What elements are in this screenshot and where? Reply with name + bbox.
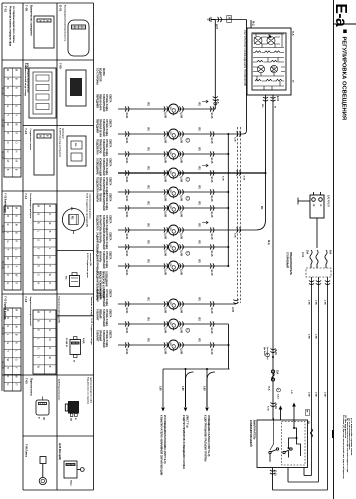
- svg-text:Г-05: Г-05: [25, 378, 29, 384]
- svg-text:О: О: [6, 141, 10, 143]
- svg-text:ОГОНЬ ЗАДН.: ОГОНЬ ЗАДН.: [105, 139, 108, 157]
- switch bottom lead: [272, 468, 274, 491]
- lamp row 2 lamp socket right: [180, 131, 184, 136]
- svg-text:Ж-01: Ж-01: [125, 251, 128, 257]
- svg-text:Г-05: Г-05: [25, 5, 29, 11]
- svg-text:RG: RG: [198, 202, 200, 206]
- lamp row 1 connector right: [210, 106, 214, 111]
- svg-text:ОГОНЬ ЗАДН.: ОГОНЬ ЗАДН.: [105, 330, 108, 348]
- svg-text:ОГОНЬ ЗАДН.: ОГОНЬ ЗАДН.: [105, 158, 108, 176]
- lamp row 7 connector right: [210, 227, 214, 232]
- svg-text:Г-08: Г-08: [59, 63, 63, 69]
- lamp row 9 connector right: [210, 263, 214, 268]
- svg-text:Ц-08: Ц-08: [164, 138, 167, 144]
- svg-text:Ж-15: Ж-15: [210, 234, 213, 240]
- lamp row 12 lamp: [169, 340, 179, 350]
- svg-text:Ж-15: Ж-15: [210, 328, 213, 334]
- lamp row 2 connector right: [210, 131, 214, 136]
- lamp row 8 connector left: [125, 244, 129, 249]
- svg-text:RG: RG: [65, 276, 67, 280]
- svg-text:3.0В: 3.0В: [314, 300, 316, 305]
- svg-text:ПРАВАЯ ФАРА: ПРАВАЯ ФАРА: [99, 119, 102, 137]
- lamp row 4 ref arrow: [202, 164, 208, 167]
- svg-text:ОГОНЬ ЗАДН.: ОГОНЬ ЗАДН.: [105, 177, 108, 195]
- svg-text:СВЕТА: СВЕТА: [109, 251, 112, 260]
- connector E-02w circle: [62, 209, 84, 231]
- svg-text:R: R: [37, 329, 41, 331]
- svg-text:СОЕДИНИТЕЛЬНЫЙ ШНУР: СОЕДИНИТЕЛЬНЫЙ ШНУР: [95, 271, 98, 302]
- svg-text:ЛМ: ЛМ: [169, 263, 171, 266]
- svg-text:ЛМ: ЛМ: [169, 151, 171, 154]
- lamp row 1 ref arrow: [202, 100, 208, 103]
- svg-text:ЛАМПА: ЛАМПА: [95, 193, 98, 202]
- svg-text:G: G: [6, 240, 10, 242]
- svg-text:МЕЖДУ КОМБИНАЦИЕЙ: МЕЖДУ КОМБИНАЦИЕЙ: [98, 271, 101, 299]
- drop wire 1: [162, 369, 164, 407]
- svg-text:ГАБАРИТ: ГАБАРИТ: [95, 330, 98, 342]
- combination switch box: [257, 420, 308, 468]
- svg-text:Под капотом со стороны: Под капотом со стороны: [87, 377, 89, 404]
- connector G-14 pin grid: [33, 204, 56, 290]
- svg-text:ПОДСВЕТКА: ПОДСВЕТКА: [95, 139, 98, 155]
- svg-text:Ж-01: Ж-01: [125, 328, 128, 334]
- svg-text:Г-16: Г-16: [24, 297, 28, 303]
- svg-text:Ц-08: Ц-08: [164, 158, 167, 164]
- lamp row 8 lamp socket left: [164, 244, 168, 249]
- svg-text:И ОСВЕЩЕНИЯ БАГАЖНИКА (ЛИСТ Е-: И ОСВЕЩЕНИЯ БАГАЖНИКА (ЛИСТ Е-б): [163, 415, 166, 464]
- lamp row 1 lamp socket right: [180, 106, 184, 111]
- lamp row 2 wire: [118, 133, 168, 135]
- lamp row 12 lamp socket right: [180, 342, 184, 347]
- svg-text:ЛМ: ЛМ: [169, 342, 171, 345]
- svg-text:G: G: [6, 105, 10, 107]
- regulator unit outer box: [247, 28, 291, 95]
- svg-text:(ЛИСТ Г-а): (ЛИСТ Г-а): [185, 415, 188, 428]
- lamp row 7 wire: [118, 229, 168, 231]
- svg-text:Ж-15: Ж-15: [210, 349, 213, 355]
- svg-text:E-a: E-a: [332, 4, 349, 28]
- svg-text:1: 1: [175, 112, 177, 113]
- svg-text:Х-05: Х-05: [234, 233, 236, 238]
- svg-text:0.85: 0.85: [203, 386, 205, 391]
- svg-text:B: B: [37, 213, 41, 215]
- svg-text:ЛМ: ЛМ: [169, 131, 171, 134]
- svg-text:R: R: [6, 325, 10, 327]
- connector G-10 plug: [34, 130, 54, 175]
- svg-text:Ж-15: Ж-15: [210, 251, 213, 257]
- svg-text:СВЕТА: СВЕТА: [109, 119, 112, 128]
- lamp row 10 connector right: [210, 301, 214, 306]
- svg-text:ГАБАРИТ: ГАБАРИТ: [95, 309, 98, 321]
- col3 divider 250: [57, 250, 94, 252]
- svg-text:Е-01: Е-01: [59, 5, 63, 12]
- svg-text:Ц-05 Переключение: Ц-05 Переключение: [57, 379, 59, 401]
- svg-text:ЛМ: ЛМ: [169, 244, 171, 247]
- svg-text:ОГОНЬ ЗАДН.: ОГОНЬ ЗАДН.: [105, 289, 108, 307]
- svg-text:1: 1: [175, 269, 177, 270]
- svg-text:0.85: 0.85: [181, 386, 183, 391]
- rows 3,5,6,8,9 to bus: [210, 153, 228, 155]
- svg-text:Ц-08: Ц-08: [164, 212, 167, 218]
- svg-text:ЛЕВАЯ ФАРА: ЛЕВАЯ ФАРА: [99, 94, 102, 111]
- svg-text:Ж-15: Ж-15: [210, 270, 213, 276]
- svg-text:RG: RG: [147, 186, 149, 190]
- svg-text:ОГОНЬ ЗАДН.: ОГОНЬ ЗАДН.: [105, 94, 108, 112]
- svg-text:ОГОНЬ ЗАДН.: ОГОНЬ ЗАДН.: [105, 251, 108, 269]
- svg-text:Ж-15: Ж-15: [210, 177, 213, 183]
- svg-text:ГАБАРИТНЫЙ: ГАБАРИТНЫЙ: [102, 94, 105, 112]
- svg-text:Ж-15: Ж-15: [210, 212, 213, 218]
- svg-text:Ж-01: Ж-01: [125, 158, 128, 164]
- lamp row 12 connector left: [125, 342, 129, 347]
- svg-text:ПРИБОРОВ: ПРИБОРОВ: [99, 139, 102, 154]
- svg-text:1: 1: [175, 348, 177, 349]
- svg-text:Соединение лампы: Соединение лампы: [29, 129, 31, 150]
- connector G-01 pin grid: [4, 68, 21, 177]
- svg-text:СВЕТА: СВЕТА: [109, 139, 112, 148]
- svg-text:Ц-08: Ц-08: [179, 138, 182, 144]
- svg-text:Ц-08: Ц-08: [179, 251, 182, 257]
- svg-text:СВЕТА: СВЕТА: [109, 177, 112, 186]
- lamp row 6 lamp: [169, 203, 179, 213]
- svg-text:Х-05: Х-05: [231, 307, 233, 313]
- svg-text:B: B: [37, 320, 41, 322]
- svg-text:Комбинированный выключатель: Комбинированный выключатель: [64, 5, 67, 42]
- svg-text:Х-05: Х-05: [243, 176, 245, 181]
- svg-text:ОГОНЬ ЗАДН.: ОГОНЬ ЗАДН.: [105, 232, 108, 250]
- svg-text:Y: Y: [6, 350, 10, 352]
- svg-text:осветительной группы: осветительной группы: [89, 194, 92, 219]
- unit bottom connectors: [265, 95, 267, 220]
- svg-text:Ц-08: Ц-08: [179, 177, 182, 183]
- lamp row 7 lamp socket left: [164, 227, 168, 232]
- lamp row 4 lamp socket left: [164, 170, 168, 175]
- svg-text:П: П: [37, 265, 41, 267]
- svg-text:Ж-Д: Ж-Д: [292, 31, 294, 36]
- lamp row 8 ref circle: [186, 251, 190, 255]
- svg-text:ВОДИТЕЛЯ: ВОДИТЕЛЯ: [99, 68, 102, 82]
- svg-text:Ц-08: Ц-08: [164, 270, 167, 276]
- svg-text:RG: RG: [198, 224, 200, 228]
- svg-text:Е-02 Соединение проводки (Ж): Е-02 Соединение проводки (Ж): [86, 194, 88, 228]
- svg-text:ГАБАРИТНЫЙ: ГАБАРИТНЫЙ: [102, 193, 105, 211]
- svg-text:ГАБАРИТНЫЙ: ГАБАРИТНЫЙ: [102, 330, 105, 348]
- svg-text:L: L: [80, 28, 82, 29]
- svg-text:RG: RG: [198, 241, 200, 245]
- svg-text:RG: RG: [147, 260, 149, 264]
- lamp row 10 connector left: [125, 301, 129, 306]
- svg-text:группы фонарного типа: группы фонарного типа: [90, 377, 93, 404]
- lamp row 4 ref circle: [186, 177, 190, 181]
- svg-text:СО СТОРОНЫ: СО СТОРОНЫ: [95, 68, 98, 85]
- svg-text:Ж-15: Ж-15: [210, 196, 213, 202]
- svg-text:G: G: [48, 256, 52, 258]
- ground wire top: [211, 19, 247, 21]
- lamp row 5 connector right: [210, 189, 214, 194]
- svg-text:0.85: 0.85: [159, 386, 161, 391]
- regulator internal circuit: [253, 34, 285, 90]
- lamp row 11 connector left: [125, 321, 129, 326]
- svg-text:приборов: приборов: [62, 128, 65, 139]
- svg-text:Н: Н: [37, 282, 41, 284]
- lamp row 10 lamp socket right: [180, 301, 184, 306]
- svg-text:RG: RG: [74, 143, 76, 147]
- svg-text:RG: RG: [198, 298, 200, 302]
- svg-text:RG: RG: [70, 207, 72, 211]
- lamp row 9 lamp: [169, 261, 179, 271]
- svg-text:ПЕЧКИ: ПЕЧКИ: [99, 193, 102, 202]
- svg-text:Е-02: Е-02: [276, 96, 278, 102]
- svg-text:Задний комбинированный: Задний комбинированный: [29, 297, 32, 327]
- svg-text:Ц-08: Ц-08: [179, 212, 182, 218]
- svg-text:Ц-08: Ц-08: [179, 234, 182, 240]
- svg-text:ЛМ: ЛМ: [169, 301, 171, 304]
- shield dashed lines: [237, 127, 239, 303]
- svg-text:СВЕТА: СВЕТА: [109, 94, 112, 103]
- svg-text:3.0В: 3.0В: [307, 300, 309, 305]
- lamp row 3 connector left: [125, 151, 129, 156]
- svg-text:КОМБИНАЦИИ: КОМБИНАЦИИ: [99, 158, 102, 176]
- svg-text:R: R: [6, 87, 10, 89]
- lamp row 11 wire: [118, 323, 168, 325]
- section bullet: [343, 30, 347, 34]
- svg-text:Ц-08: Ц-08: [164, 234, 167, 240]
- svg-text:П: П: [6, 132, 10, 134]
- rows 11-12 tie to bottom bus: [210, 323, 229, 325]
- svg-text:1: 1: [175, 327, 177, 328]
- svg-text:25 ЦВ Ж: 25 ЦВ Ж: [65, 338, 67, 347]
- svg-text:со стороны водителя и лампы: со стороны водителя и лампы: [12, 6, 15, 43]
- svg-text:(с): не интенсивности задних: (с): не интенсивности задних: [348, 418, 350, 451]
- svg-text:Ц-08: Ц-08: [179, 158, 182, 164]
- lamp row 10 lamp: [169, 299, 179, 309]
- svg-text:ЛМ: ЛМ: [169, 321, 171, 324]
- svg-text:СВЕТА: СВЕТА: [109, 158, 112, 167]
- lamp row 11 ref circle: [186, 328, 190, 332]
- svg-text:ЛЕВЫЙ: ЛЕВЫЙ: [99, 309, 102, 319]
- lamp row 7 ref arrow: [202, 221, 208, 224]
- lamp row 8 lamp socket right: [180, 244, 184, 249]
- lamp row 2 ref circle: [186, 138, 190, 142]
- svg-text:1: 1: [175, 233, 177, 234]
- lamp row 5 lamp socket right: [180, 189, 184, 194]
- unit left wire hook to row7: [256, 220, 266, 230]
- svg-text:СВЕТА: СВЕТА: [109, 193, 112, 202]
- svg-text:Ж-01: Ж-01: [125, 308, 128, 314]
- row2 wire to top ground: [210, 133, 243, 135]
- svg-text:О: О: [48, 320, 52, 322]
- svg-text:RG: RG: [198, 148, 200, 152]
- svg-text:RG: RG: [147, 339, 149, 343]
- svg-text:Н: Н: [6, 151, 10, 153]
- svg-text:Е-02 Соединение пров.: Е-02 Соединение пров.: [86, 253, 88, 278]
- lamp row 6 connector left: [125, 205, 129, 210]
- lamp row 2 lamp socket left: [164, 131, 168, 136]
- svg-text:RG: RG: [147, 128, 149, 132]
- svg-text:Ж-01: Ж-01: [125, 349, 128, 355]
- svg-text:ПРИБОРОВ И ГРУППОЙ: ПРИБОРОВ И ГРУППОЙ: [102, 271, 105, 298]
- col3 divider 315: [57, 315, 94, 317]
- svg-text:ОГОНЬ ЗАДН.: ОГОНЬ ЗАДН.: [105, 215, 108, 233]
- svg-text:ОСВЕЩЕНИЯ САЛОНА (ЛИСТ Е-б): ОСВЕЩЕНИЯ САЛОНА (ЛИСТ Е-б): [207, 415, 210, 456]
- lamp row 12 lamp socket left: [164, 342, 168, 347]
- connector G-16 pin grid: [33, 310, 56, 374]
- svg-text:М: М: [6, 160, 10, 162]
- svg-text:Ц-08: Ц-08: [179, 308, 182, 314]
- svg-text:Ц-08: Ц-08: [179, 196, 182, 202]
- svg-text:Ж-15: Ж-15: [210, 113, 213, 119]
- svg-text:Н: Н: [6, 282, 10, 284]
- switch top leads: [273, 418, 275, 420]
- svg-text:ОСВЕЩЕНИЕ: ОСВЕЩЕНИЕ: [95, 158, 98, 175]
- svg-text:G: G: [37, 239, 41, 241]
- battery down wire: [316, 218, 318, 248]
- svg-text:15А: 15А: [276, 370, 279, 375]
- svg-text:RG: RG: [198, 167, 200, 171]
- svg-text:ГАБАРИТНЫЙ: ГАБАРИТНЫЙ: [102, 158, 105, 176]
- svg-text:Ж-Д: Ж-Д: [252, 21, 254, 26]
- svg-text:Ц-08: Ц-08: [164, 177, 167, 183]
- lamp row 5 ref circle: [186, 196, 190, 200]
- svg-text:Ж-Д: Ж-Д: [217, 99, 219, 104]
- lamp row 5 lamp socket left: [164, 189, 168, 194]
- fuse on right feed: [310, 429, 312, 437]
- svg-text:RG: RG: [147, 202, 149, 206]
- svg-text:СВЕТА: СВЕТА: [109, 289, 112, 298]
- lamp row 9 wire: [118, 265, 168, 267]
- lamp row 7 lamp socket right: [180, 227, 184, 232]
- svg-text:Х-05: Х-05: [234, 137, 236, 142]
- svg-text:ГАБАРИТНЫЙ: ГАБАРИТНЫЙ: [102, 309, 105, 327]
- svg-text:3.0В: 3.0В: [314, 392, 316, 397]
- svg-text:К ЦЕНТРАЛЬНОМУ РАЗЪЕМУ ГРУППЫ: К ЦЕНТРАЛЬНОМУ РАЗЪЕМУ ГРУППЫ: [203, 415, 206, 462]
- lamp row 1 lamp: [169, 104, 179, 114]
- svg-text:1: 1: [175, 176, 177, 177]
- svg-text:RG: RG: [198, 186, 200, 190]
- battery box: [310, 195, 324, 218]
- svg-text:Ц-08: Ц-08: [164, 251, 167, 257]
- fuse 15A on unit wire: [271, 370, 274, 373]
- svg-text:РЕГУЛЯТОР ОСВЕЩЕНИЯ ПРИБОРОВ: РЕГУЛЯТОР ОСВЕЩЕНИЯ ПРИБОРОВ: [243, 30, 247, 86]
- svg-text:Y: Y: [6, 249, 10, 251]
- svg-text:О: О: [6, 274, 10, 276]
- svg-text:ЛМ: ЛМ: [169, 205, 171, 208]
- svg-text:R: R: [6, 224, 10, 226]
- svg-text:осветит. (Ж): осветит. (Ж): [89, 253, 91, 266]
- main feed verticals: [311, 277, 313, 476]
- svg-text:ГАБАРИТНЫЙ: ГАБАРИТНЫЙ: [102, 119, 105, 137]
- svg-text:Ц-08: Ц-08: [179, 328, 182, 334]
- svg-text:СВЕТА: СВЕТА: [109, 330, 112, 339]
- svg-text:Указание на шнур: Указание на шнур: [90, 297, 92, 317]
- svg-text:B: B: [6, 317, 10, 319]
- switch internal path: [289, 420, 301, 458]
- svg-text:Ц-08 Мотор(М): Ц-08 Мотор(М): [58, 443, 61, 460]
- svg-text:R: R: [37, 222, 41, 224]
- svg-text:ПОДСВЕТКА: ПОДСВЕТКА: [95, 215, 98, 231]
- svg-text:М: М: [48, 205, 52, 207]
- svg-text:80А: 80А: [329, 250, 332, 255]
- svg-text:ОГОНЬ ЗАДН.: ОГОНЬ ЗАДН.: [105, 309, 108, 327]
- lamp row 11 lamp socket left: [164, 321, 168, 326]
- svg-text:RG: RG: [147, 103, 149, 107]
- svg-text:и: не выключайте горящие лампы: и: не выключайте горящие лампы: [350, 418, 353, 455]
- svg-text:Х-14: Х-14: [276, 394, 279, 399]
- svg-text:Ж: Ж: [274, 106, 276, 108]
- fuse block dashed: [306, 268, 331, 277]
- svg-text:RG: RG: [147, 224, 149, 228]
- svg-text:СВЕТА: СВЕТА: [109, 232, 112, 241]
- connector E-02 body: [67, 136, 86, 166]
- svg-text:Ц-08: Ц-08: [164, 308, 167, 314]
- connector G-03 pin grid: [4, 308, 21, 391]
- bottom return lines: [273, 489, 328, 491]
- blotch on strip line: [332, 430, 334, 438]
- svg-text:ФАРЫ: ФАРЫ: [102, 68, 105, 76]
- svg-text:Ж: Ж: [73, 360, 75, 362]
- svg-text:RG: RG: [198, 318, 200, 322]
- connector G-02 pin grid: [4, 206, 21, 290]
- lamp row 1 wire: [118, 108, 168, 110]
- lamp row 9 connector left: [125, 263, 129, 268]
- table divider y125: [23, 125, 94, 127]
- svg-text:B: B: [48, 231, 52, 233]
- svg-text:Ж-15: Ж-15: [210, 308, 213, 314]
- lamp row 6 lamp socket right: [180, 205, 184, 210]
- svg-text:К ЩИТКУ ПРИБОРОВ ОСВЕЩЕНИЯ САЛ: К ЩИТКУ ПРИБОРОВ ОСВЕЩЕНИЯ САЛОНА: [182, 415, 185, 469]
- lamp row 5 lamp: [169, 187, 179, 197]
- lamp row 6 connector right: [210, 205, 214, 210]
- lamp row 11 lamp: [169, 319, 179, 329]
- lamp row 7 connector left: [125, 227, 129, 232]
- svg-text:Y: Y: [37, 248, 41, 250]
- svg-text:ГАБАРИТНЫЙ: ГАБАРИТНЫЙ: [102, 215, 105, 233]
- switch contacts: [269, 448, 292, 462]
- svg-text:ПЕРЕДНЯЯ: ПЕРЕДНЯЯ: [95, 94, 98, 108]
- svg-text:Ж-01: Ж-01: [125, 270, 128, 276]
- svg-text:Ц-08: Ц-08: [164, 196, 167, 202]
- svg-text:СВЕТА: СВЕТА: [109, 215, 112, 224]
- bus of rows 2-9: [227, 134, 229, 266]
- svg-text:RG: RG: [147, 148, 149, 152]
- svg-text:Ц-08: Ц-08: [179, 349, 182, 355]
- svg-text:Выключатель освещения: Выключатель освещения: [30, 5, 33, 36]
- svg-text:ОГОНЬ ЗАДН.: ОГОНЬ ЗАДН.: [105, 119, 108, 137]
- connector G-05 pins: [34, 16, 54, 48]
- svg-text:Х-05: Х-05: [222, 176, 224, 181]
- svg-text:1: 1: [175, 157, 177, 158]
- row10 wire to shield end: [210, 303, 236, 305]
- svg-text:ВЫКЛЮЧАТЕЛЬ: ВЫКЛЮЧАТЕЛЬ: [252, 420, 255, 440]
- svg-text:В ЦД: В ЦД: [82, 338, 84, 344]
- svg-text:П: П: [48, 311, 52, 313]
- svg-text:П: П: [6, 367, 10, 369]
- svg-text:ОСВЕЩЕНИЯ: ОСВЕЩЕНИЯ: [105, 271, 107, 287]
- svg-text:Г-10: Г-10: [24, 129, 28, 135]
- svg-text:ГАБАРИТНЫЙ: ГАБАРИТНЫЙ: [102, 139, 105, 157]
- svg-text:Ж-01: Ж-01: [125, 177, 128, 183]
- lamp row 4 lamp: [169, 168, 179, 178]
- svg-text:3.0В: 3.0В: [307, 334, 309, 339]
- svg-text:Ж-Д: Ж-Д: [267, 240, 269, 245]
- unit top feed wire: [250, 20, 252, 28]
- svg-text:Ж-Д: Ж-Д: [268, 386, 270, 391]
- svg-text:СВЕТА: СВЕТА: [109, 309, 112, 318]
- svg-text:О: О: [37, 274, 41, 276]
- svg-text:Ж-01: Ж-01: [125, 234, 128, 240]
- svg-text:Н: Н: [48, 329, 52, 331]
- svg-text:Ж-01: Ж-01: [125, 196, 128, 202]
